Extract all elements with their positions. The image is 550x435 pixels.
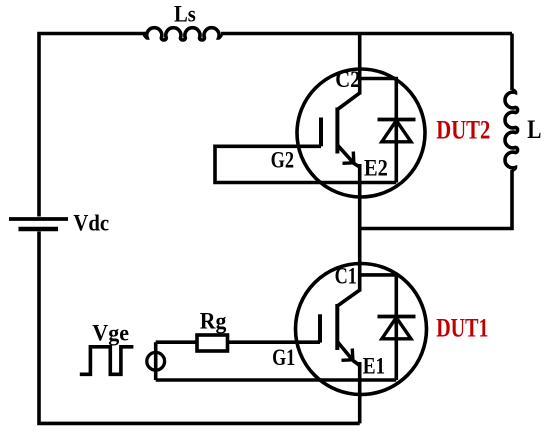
IGBT DUT2 package circle [297,69,425,197]
DUT2 collector diagonal [337,93,359,110]
wire top rail right (Ls to right corner) [221,32,512,36]
svg-text:DUT1: DUT1 [436,314,488,343]
svg-text:Vdc: Vdc [73,210,109,235]
wire top rail left (Vdc+ to Ls) [39,34,146,217]
svg-text:Rg: Rg [200,309,227,334]
svg-text:E1: E1 [363,354,385,379]
wire DUT1 emitter down to bottom rail [358,362,362,423]
DUT2 diode D2 connection wires [360,79,397,183]
source Vge vertical lead [154,342,158,380]
battery Vdc top plate [9,217,68,221]
DUT1 gate bar [318,314,322,342]
DUT2 emitter diagonal with continuation [337,145,359,167]
svg-text:G1: G1 [272,345,295,370]
DUT2 diode D2 triangle [382,121,411,142]
DUT1 collector diagonal [337,290,359,306]
DUT2 gate-emitter shorting loop (gate lead, left edge, bottom return) [215,146,396,182]
source Vge circle symbol [147,352,165,370]
DUT1 emitter diagonal with continuation [337,342,359,366]
svg-text:Vge: Vge [92,320,129,345]
svg-text:C1: C1 [335,264,357,289]
wire left rail below battery to bottom rail [39,232,360,424]
wire right rail down to load [510,34,514,91]
resistor Rg body [197,335,228,351]
DUT2 emitter arrow barbs [343,152,354,164]
DUT1 diode D1 connection wires [360,275,397,380]
DUT1 emitter arrow barbs [342,349,353,361]
Vge double-pulse waveform symbol [80,347,134,375]
DUT1 diode D1 cathode bar [378,315,416,319]
DUT2 gate bar [319,118,323,147]
wire Rg to gate G1 [228,340,321,344]
wire DUT2 emitter down to DUT1 collector (phase node) [358,164,362,292]
svg-text:L: L [527,115,541,144]
wire Vge- return to emitter E1 and diode D1 anode [156,378,397,382]
svg-text:C2: C2 [335,67,360,92]
DUT1 channel bar [335,304,339,350]
svg-text:G2: G2 [271,148,294,173]
inductor Ls [144,28,221,40]
inductor L (load) [505,90,518,171]
wire Vge+ to Rg [156,340,197,344]
DUT1 diode D1 triangle [382,318,411,339]
svg-text:E2: E2 [364,156,388,181]
svg-text:DUT2: DUT2 [436,116,490,145]
wire right rail below load to bottom of loop [360,170,512,229]
IGBT DUT1 package circle [296,264,427,395]
svg-text:Ls: Ls [174,1,196,26]
wire DUT2 collector from top rail [358,34,362,95]
DUT2 channel bar [335,108,339,154]
battery Vdc bottom plate [19,227,59,231]
DUT2 diode D2 cathode bar [378,118,416,122]
